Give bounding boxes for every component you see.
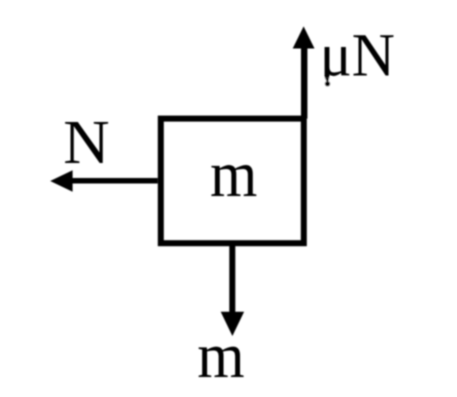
svg-text:m: m — [197, 319, 244, 391]
wire: normal force shaft (left from left side) — [70, 178, 158, 184]
mass block m — [161, 119, 304, 244]
mu tail taper — [325, 78, 330, 83]
svg-text:N: N — [63, 107, 109, 177]
arrowhead: normal force left — [50, 170, 72, 191]
wire: weight force shaft (down from bottom center) — [229, 243, 235, 313]
arrowhead: friction force up — [293, 26, 315, 48]
wire: friction force shaft (up from top-right corner) — [301, 46, 307, 119]
mu tail reshaping: erase straight descender below taper point — [323, 78, 332, 92]
mu tail droplet — [325, 81, 330, 86]
arrowhead: weight force down — [221, 312, 244, 336]
svg-text:m: m — [210, 138, 257, 211]
